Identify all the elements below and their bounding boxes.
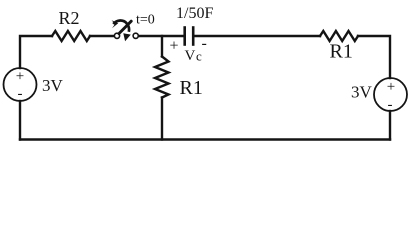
- wire top-right corner: [358, 36, 390, 78]
- voltage source V2 right: [374, 78, 407, 111]
- wire R1 middle to bottom: [161, 98, 163, 140]
- svg-text:3V: 3V: [42, 76, 64, 95]
- wire switch to node A: [138, 35, 184, 37]
- svg-text:1/50F: 1/50F: [176, 5, 213, 22]
- wire left source to bottom: [19, 101, 21, 140]
- switch SW1 blade: [119, 21, 131, 33]
- svg-text:R1: R1: [330, 41, 353, 63]
- wire node A down: [161, 36, 163, 57]
- svg-text:-: -: [202, 35, 207, 52]
- capacitor C plate left: [183, 28, 186, 45]
- svg-text:-: -: [18, 86, 23, 102]
- wire bottom: [20, 138, 390, 140]
- svg-text:R1: R1: [180, 77, 203, 99]
- svg-text:+: +: [387, 79, 395, 95]
- voltage source V1 left: [4, 68, 37, 101]
- switch SW1 terminal right: [133, 33, 138, 38]
- svg-text:+: +: [170, 38, 179, 55]
- capacitor C plate right: [192, 28, 195, 45]
- wire capacitor to R1 top: [193, 35, 320, 37]
- svg-text:t=0: t=0: [136, 13, 155, 28]
- svg-text:R2: R2: [59, 8, 80, 28]
- svg-text:V: V: [185, 48, 196, 64]
- svg-text:+: +: [16, 69, 24, 85]
- resistor R2: [52, 31, 90, 41]
- wire top-left corner: [20, 36, 52, 68]
- switch SW1 closing arrow: [113, 20, 129, 31]
- resistor R1 top: [320, 31, 358, 41]
- svg-text:3V: 3V: [351, 83, 373, 102]
- switch SW1 terminal left: [114, 33, 119, 38]
- wire right source to bottom: [389, 111, 391, 140]
- wire R2 to switch: [90, 35, 114, 37]
- svg-text:-: -: [388, 97, 393, 113]
- resistor R1 middle: [155, 57, 169, 98]
